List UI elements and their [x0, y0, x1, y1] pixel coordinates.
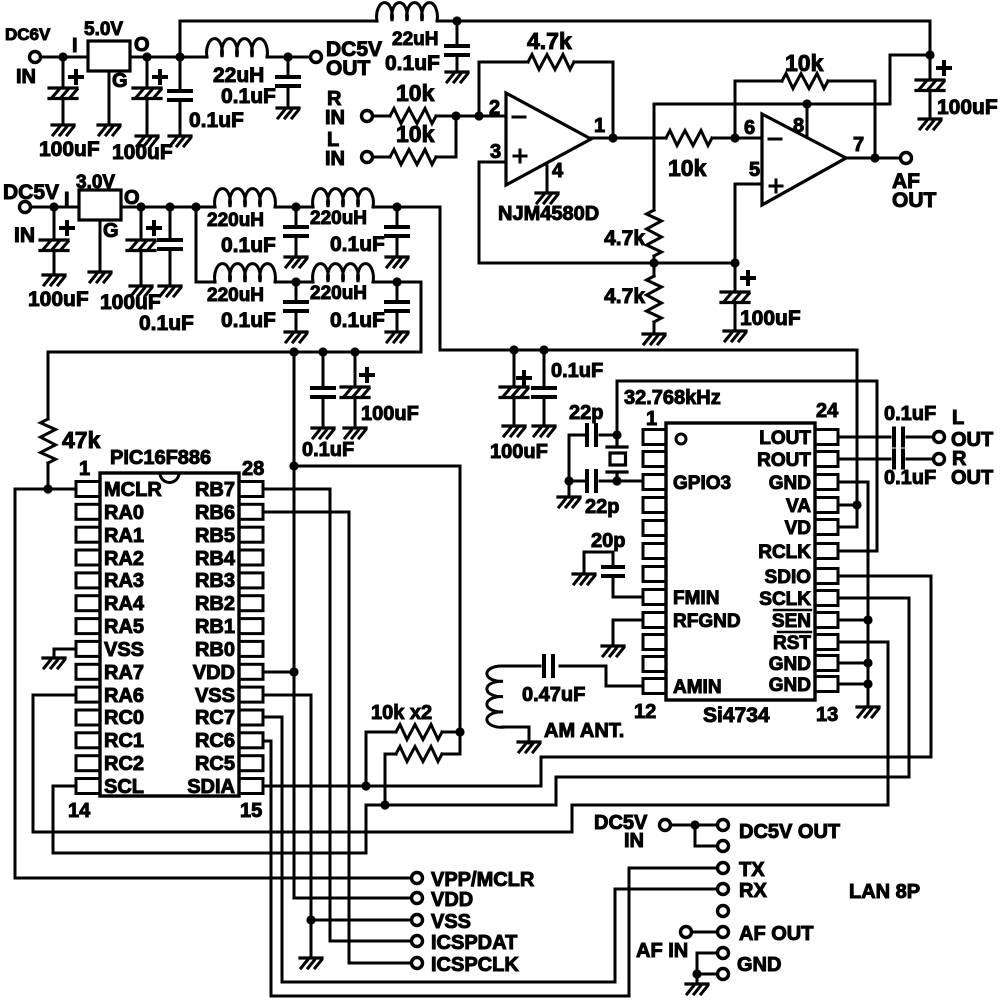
- svg-text:FMIN: FMIN: [673, 588, 719, 609]
- wire to C3: [179, 57, 182, 91]
- wire AM coil to ground: [503, 727, 529, 743]
- svg-text:LOUT: LOUT: [759, 428, 811, 449]
- junction C2 tap: [142, 52, 151, 61]
- wire C14 to ground: [396, 311, 399, 332]
- U5 pin 12 box: [643, 679, 666, 694]
- capacitor C10 0.1uF: [159, 240, 181, 249]
- junction SCLK pull-up tap: [380, 800, 389, 809]
- junction C11 tap: [291, 202, 300, 211]
- capacitor C5 0.1uF: [446, 46, 468, 55]
- U4 pin 28 box (RB7): [239, 482, 263, 497]
- U5 pin 18 box: [815, 569, 838, 584]
- U4 pin 20 box (VDD): [239, 664, 263, 679]
- svg-text:6: 6: [744, 117, 755, 139]
- svg-text:RA7: RA7: [104, 662, 144, 684]
- inductor L2 22uH op-amp supply: [377, 3, 438, 21]
- plus sign C9: [148, 222, 160, 234]
- svg-text:VSS: VSS: [195, 685, 235, 707]
- op-amp U3A NJM4580D triangle: [506, 93, 591, 185]
- ground below C11: [285, 257, 307, 267]
- wire C9 to ground: [140, 251, 143, 286]
- wire R9 to VDD feed: [442, 731, 460, 734]
- junction 22p ground node: [564, 476, 573, 485]
- ground below C4: [277, 108, 299, 118]
- svg-text:RC2: RC2: [104, 753, 144, 775]
- svg-text:GND: GND: [737, 954, 781, 976]
- wire RC6 to LAN TX: [263, 741, 716, 996]
- svg-text:0.1uF: 0.1uF: [139, 312, 194, 335]
- svg-text:100uF: 100uF: [937, 96, 998, 119]
- wire R5 to bias node: [653, 256, 656, 263]
- U4 pin 1 box (MCLR): [76, 482, 100, 497]
- wire to C17: [513, 350, 516, 387]
- junction U3B output node: [870, 153, 879, 162]
- wire R6 to ground: [653, 322, 656, 334]
- wire R7 to output: [828, 81, 875, 158]
- wire op-amp V+ supply line: [654, 103, 890, 106]
- svg-text:100uF: 100uF: [361, 403, 419, 425]
- wire 22p C20 right: [600, 480, 617, 483]
- wire GND13 to bus: [838, 683, 868, 686]
- capacitor C17 100uF polarized plate: [500, 387, 528, 398]
- wire R8 to MCLR node: [47, 463, 50, 489]
- wire U3B feedback up: [735, 81, 782, 138]
- svg-text:0.1uF: 0.1uF: [221, 234, 276, 257]
- junction C16 tap: [350, 347, 359, 356]
- wire DC5V IN to U2: [32, 206, 79, 209]
- wire DC5V to LAN pin2: [695, 825, 716, 846]
- LAN 8P pin 1 circle: [718, 820, 729, 831]
- svg-text:4: 4: [552, 160, 564, 182]
- ground below C15: [312, 428, 334, 438]
- ground below C10: [159, 286, 181, 296]
- svg-text:0.1uF: 0.1uF: [551, 360, 603, 382]
- junction U3A output node: [608, 133, 617, 142]
- plus sign inside U3A: [514, 150, 526, 162]
- svg-text:13: 13: [816, 704, 838, 726]
- wire to C4: [287, 57, 290, 77]
- svg-text:RC5: RC5: [195, 753, 235, 775]
- wire C18 to ground: [543, 397, 546, 426]
- ground below C17: [503, 426, 525, 436]
- svg-text:AF OUT: AF OUT: [739, 923, 813, 945]
- ground below U2 G: [89, 272, 111, 282]
- junction VDD pin tap: [289, 667, 298, 676]
- junction VDD line tap: [289, 347, 298, 356]
- U5 pin 7 box: [643, 567, 666, 582]
- U5 pin 16 box: [815, 613, 838, 628]
- svg-text:RC1: RC1: [104, 730, 144, 752]
- wire R10 to VDD feed: [442, 732, 460, 754]
- capacitor C22 0.47uF: [544, 656, 553, 676]
- ground RFGND: [602, 646, 624, 656]
- svg-text:RC7: RC7: [195, 707, 235, 729]
- junction bias divider node: [649, 258, 658, 267]
- U4 pin 15 box (SDIA): [239, 779, 263, 794]
- ground below C9: [130, 286, 152, 296]
- U5 pin 3 box: [643, 475, 666, 490]
- ground below 22p caps: [558, 497, 580, 507]
- svg-text:220uH: 220uH: [310, 208, 367, 229]
- svg-text:RX: RX: [739, 880, 767, 902]
- LAN 8P pin 4 circle: [718, 884, 729, 895]
- svg-text:28: 28: [242, 458, 264, 480]
- wire V+ node to op-amp supply feed: [890, 55, 930, 104]
- plus sign C17: [518, 372, 530, 384]
- wire to C1: [62, 57, 65, 88]
- wire crystal to RCLK line: [617, 380, 877, 383]
- wire RCLK pin stub: [838, 550, 877, 553]
- junction crystal top node: [612, 430, 621, 439]
- U4 pin 3 box (RA1): [76, 527, 100, 542]
- inductor L3 220uH: [215, 189, 276, 207]
- svg-text:GND: GND: [769, 473, 811, 494]
- wire C15 to ground: [322, 397, 325, 428]
- wire 22p C19 left: [569, 434, 587, 437]
- wire VD pin to analog rail: [838, 526, 857, 529]
- wire L6 to digital rail corner: [375, 281, 421, 284]
- wire pull-up R9 to SDIA line: [366, 732, 396, 786]
- wire to ground: [696, 974, 699, 984]
- LAN 8P pin 8 circle: [718, 969, 729, 980]
- U5 pin 21 box: [815, 498, 838, 513]
- U5 pin 5 box: [643, 521, 666, 536]
- wire C16 to ground: [354, 398, 357, 428]
- regulator U1 5.0V body: [88, 41, 130, 71]
- junction VA tap: [852, 500, 861, 509]
- svg-text:MCLR: MCLR: [104, 479, 162, 501]
- svg-text:22uH: 22uH: [392, 29, 438, 50]
- resistor R1 10k: [390, 109, 436, 124]
- svg-text:RB4: RB4: [195, 548, 236, 570]
- junction C5 tap: [452, 16, 461, 25]
- svg-text:GND: GND: [769, 654, 811, 675]
- svg-text:0.1uF: 0.1uF: [189, 109, 244, 132]
- svg-text:I: I: [64, 189, 70, 211]
- wire GND14 to bus: [838, 662, 868, 665]
- svg-text:VDD: VDD: [193, 662, 235, 684]
- U5 pin 10 box: [643, 635, 666, 650]
- overline for RST: [778, 631, 811, 634]
- minus sign inside U3B: [769, 138, 781, 141]
- resistor R6 4.7k lower divider: [647, 276, 662, 322]
- wire RFGND pin to ground: [613, 620, 643, 644]
- junction op-amp V+ node: [925, 50, 934, 59]
- capacitor C11 0.1uF: [285, 227, 307, 236]
- junction C13 tap: [291, 277, 300, 286]
- wire R2 up to mix node: [436, 116, 456, 157]
- wire Si GND bus: [838, 482, 868, 705]
- ground below R6: [643, 334, 665, 344]
- wire C4 to ground: [287, 86, 290, 108]
- svg-text:100uF: 100uF: [112, 141, 173, 164]
- wire C12 to ground: [396, 236, 399, 257]
- svg-text:SDIA: SDIA: [187, 776, 235, 798]
- svg-text:32.768kHz: 32.768kHz: [624, 387, 721, 409]
- svg-text:3: 3: [490, 141, 501, 163]
- U5 pin 22 box: [815, 475, 838, 490]
- wire analog rail drop: [439, 207, 442, 350]
- wire C7 to ground: [734, 303, 737, 331]
- svg-text:RA2: RA2: [104, 548, 144, 570]
- junction MCLR node: [43, 484, 52, 493]
- svg-text:ROUT: ROUT: [757, 450, 811, 471]
- wire U4 VDD pin to VDD line: [263, 671, 294, 674]
- svg-text:4.7k: 4.7k: [527, 28, 572, 54]
- wire DC6V IN to regulator: [42, 56, 88, 59]
- junction C3 tap / top rail: [175, 52, 184, 61]
- U4 pin 11 box (RC0): [76, 710, 100, 725]
- wire L4 to analog rail corner: [375, 206, 440, 209]
- U4 pin 19 box (VSS): [239, 687, 263, 702]
- svg-text:RB7: RB7: [195, 479, 235, 501]
- svg-text:10k: 10k: [396, 80, 435, 106]
- inductor L7 AM ANT loop antenna: [487, 666, 503, 727]
- LAN 8P pin 5 circle: [718, 906, 729, 917]
- terminal L IN: [362, 152, 373, 163]
- svg-text:0.1uF: 0.1uF: [884, 467, 936, 489]
- wire RA6 to Si4734 RST: [33, 642, 888, 832]
- svg-text:IN: IN: [624, 830, 644, 852]
- junction pull-up VDD node: [455, 727, 464, 736]
- svg-text:100uF: 100uF: [740, 307, 801, 330]
- wire U2 output 3V node: [121, 206, 215, 209]
- svg-text:220uH: 220uH: [207, 210, 264, 231]
- ground AM antenna: [518, 742, 540, 752]
- wire AMIN to C22: [560, 666, 643, 686]
- ground below C7: [724, 331, 746, 341]
- wire to C9: [140, 207, 143, 240]
- wire 22p common leg: [568, 435, 571, 481]
- junction C15 tap: [318, 347, 327, 356]
- svg-text:SDIO: SDIO: [765, 567, 811, 588]
- junction GND pin 13: [863, 679, 872, 688]
- wire SDIO pin stub: [838, 575, 931, 578]
- svg-text:RB3: RB3: [195, 570, 235, 592]
- svg-text:VPP/MCLR: VPP/MCLR: [431, 869, 535, 891]
- svg-text:IN: IN: [325, 107, 345, 129]
- capacitor C6 100uF polarized plate: [916, 80, 944, 91]
- wire bias rail 2.5V: [479, 262, 735, 265]
- terminal DC6V IN J1: [30, 52, 41, 63]
- regulator U2 3.0V body: [79, 190, 121, 220]
- wire to C11: [295, 207, 298, 227]
- svg-text:20p: 20p: [591, 530, 625, 552]
- wire U4 VSS pin8 to ground: [54, 649, 76, 658]
- wire C10 to ground: [169, 249, 172, 286]
- junction C10 tap: [165, 202, 174, 211]
- svg-text:SEN: SEN: [772, 611, 811, 632]
- svg-text:22p: 22p: [569, 402, 603, 424]
- wire to C5: [456, 21, 459, 46]
- svg-text:G: G: [103, 220, 119, 242]
- U5 pin 8 box: [643, 590, 666, 605]
- wire C22 to AM antenna coil: [503, 665, 540, 668]
- junction row2 branch: [191, 202, 200, 211]
- U4 pin 24 box (RB3): [239, 573, 263, 588]
- ground below C14: [386, 332, 408, 342]
- U5 pin 4 box: [643, 498, 666, 513]
- wire pin3 down to bias rail: [478, 162, 481, 263]
- svg-text:NJM4580D: NJM4580D: [498, 203, 599, 225]
- svg-text:AMIN: AMIN: [673, 677, 722, 698]
- wire feedback up from pin2: [479, 62, 528, 116]
- wire SCL to Si4734 SCLK: [53, 598, 909, 853]
- svg-text:14: 14: [68, 800, 91, 822]
- capacitor C1 100uF polarized plate: [49, 88, 77, 99]
- wire digital rail drop: [420, 282, 423, 352]
- svg-text:10k x2: 10k x2: [371, 702, 432, 724]
- U4 pin 18 box (RC7): [239, 710, 263, 725]
- wire RB7 to ICSPDAT terminal: [263, 489, 410, 941]
- wire AF IN to GND pin: [697, 953, 716, 974]
- wire U1 G pin to ground: [108, 71, 111, 125]
- wire C5 to ground: [456, 55, 459, 72]
- wire U3A pin4 to ground: [546, 166, 549, 191]
- wire analog rail down to VA VD: [856, 350, 859, 527]
- plus sign C8: [61, 222, 73, 234]
- svg-text:AF IN: AF IN: [636, 940, 688, 962]
- wire R IN to R1: [374, 115, 390, 118]
- ground below U1 G pin: [98, 125, 120, 135]
- wire to C8: [53, 207, 56, 240]
- junction node DC6V input: [58, 52, 67, 61]
- svg-text:DC5V: DC5V: [3, 181, 59, 204]
- wire C24 to R OUT terminal: [907, 458, 932, 461]
- U4 pin 22 box (RB1): [239, 619, 263, 634]
- svg-text:VD: VD: [785, 518, 811, 539]
- terminal AF OUT: [901, 153, 912, 164]
- wire to C15: [322, 352, 325, 388]
- svg-text:0.1uF: 0.1uF: [385, 52, 440, 75]
- svg-text:SCLK: SCLK: [759, 589, 811, 610]
- svg-text:RFGND: RFGND: [673, 611, 741, 632]
- wire RB6 to ICSPCLK terminal: [263, 512, 410, 963]
- wire L1 to DC5V OUT: [267, 56, 309, 59]
- junction DC5V lan node: [690, 820, 699, 829]
- terminal AF OUT mate: [681, 927, 692, 938]
- wire pin 8 stub: [806, 104, 809, 137]
- svg-text:RB1: RB1: [195, 616, 235, 638]
- svg-text:10k: 10k: [396, 121, 435, 147]
- svg-text:I: I: [72, 35, 78, 57]
- wire crystal to GPIO3 pin: [617, 480, 643, 483]
- ground below C3: [169, 136, 191, 146]
- wire bias to U3B pin5: [735, 184, 762, 263]
- plus sign C2: [154, 71, 166, 83]
- junction VDD to pull-up feed: [289, 461, 298, 470]
- junction AF IN ground node: [692, 969, 701, 978]
- wire digital 3V rail: [48, 351, 421, 354]
- svg-text:220uH: 220uH: [310, 283, 367, 304]
- wire C3 to ground: [179, 100, 182, 136]
- wire C17 to ground: [513, 398, 516, 426]
- ground below C6: [919, 119, 941, 129]
- wire C13 to ground: [295, 311, 298, 332]
- junction U3B pin6 node: [730, 133, 739, 142]
- U4 pin 7 box (RA5): [76, 619, 100, 634]
- ground below C8: [43, 275, 65, 285]
- junction SDIO pull-up tap: [361, 781, 370, 790]
- junction C17 tap: [509, 345, 518, 354]
- U4 pin 8 box (VSS): [76, 641, 100, 656]
- svg-text:RA4: RA4: [104, 593, 145, 615]
- svg-text:47k: 47k: [62, 427, 101, 453]
- wire AF OUT jumper: [693, 931, 716, 934]
- U5 pin 1 marker circle: [676, 434, 686, 444]
- ground U4 pin 8 VSS: [43, 658, 65, 668]
- svg-text:RA5: RA5: [104, 616, 144, 638]
- svg-text:ICSPDAT: ICSPDAT: [431, 932, 517, 954]
- wire VA pin to analog rail: [838, 504, 857, 507]
- wire to C2: [146, 57, 149, 88]
- wire U3B output to AF OUT: [846, 157, 899, 160]
- svg-text:Si4734: Si4734: [703, 704, 770, 727]
- wire 22p C20 left: [569, 480, 587, 483]
- ground for C21: [573, 574, 595, 584]
- overline for SEN: [774, 609, 811, 612]
- svg-text:10k: 10k: [668, 155, 707, 181]
- wire C8 to ground: [53, 251, 56, 275]
- U4 pin 4 box (RA2): [76, 550, 100, 565]
- svg-text:1: 1: [646, 408, 657, 430]
- wire DC5V IN to LAN pin1: [672, 824, 716, 827]
- U4 pin 10 box (RA6): [76, 687, 100, 702]
- wire R1 to op-amp pin 2: [436, 115, 506, 118]
- wire SEN pin to ground bus: [838, 619, 868, 622]
- wire bias node to R6: [653, 263, 656, 276]
- wire C23 to L OUT terminal: [907, 436, 932, 439]
- svg-text:LAN 8P: LAN 8P: [849, 881, 920, 903]
- terminal ICSPDAT: [412, 936, 423, 947]
- svg-text:GPIO3: GPIO3: [673, 473, 731, 494]
- wire C1 to ground: [62, 99, 65, 125]
- resistor R10 10k pull-up: [396, 747, 442, 762]
- svg-text:G: G: [112, 70, 128, 92]
- capacitor C2 100uF polarized plate: [133, 88, 161, 99]
- wire to ground: [568, 481, 571, 497]
- U5 pin 24 box: [815, 430, 838, 445]
- U5 pin 23 box: [815, 452, 838, 467]
- ground Si4734 GND bus: [857, 707, 879, 717]
- svg-text:IN: IN: [16, 66, 36, 88]
- U4 pin 16 box (RC5): [239, 756, 263, 771]
- LAN 8P pin 7 circle: [718, 948, 729, 959]
- svg-text:L: L: [952, 407, 964, 429]
- U4 pin 17 box (RC6): [239, 733, 263, 748]
- capacitor C19 22p: [587, 425, 596, 445]
- ground below C5: [446, 72, 468, 82]
- plus sign C7: [742, 272, 754, 284]
- wire to C16: [354, 352, 357, 387]
- U4 pin 13 box (RC2): [76, 756, 100, 771]
- resistor R3 4.7k feedback: [528, 55, 574, 70]
- wire op-amp pin 3 stub: [479, 161, 506, 164]
- svg-text:RA3: RA3: [104, 570, 144, 592]
- wire C2 to ground: [146, 99, 149, 136]
- wire RC7 to LAN RX: [263, 717, 716, 982]
- wire 20p top to ground leg: [584, 552, 613, 572]
- wire ROUT to C24: [838, 458, 890, 461]
- wire to C12: [396, 207, 399, 227]
- terminal DC5V IN lan: [660, 820, 671, 831]
- capacitor C21 20p: [603, 567, 623, 576]
- IC U4 notch: [160, 473, 179, 483]
- wire down to crystal top: [616, 381, 619, 435]
- junction L-channel mix node: [451, 111, 460, 120]
- capacitor C8 100uF polarized plate: [40, 240, 68, 251]
- svg-text:RB6: RB6: [195, 502, 235, 524]
